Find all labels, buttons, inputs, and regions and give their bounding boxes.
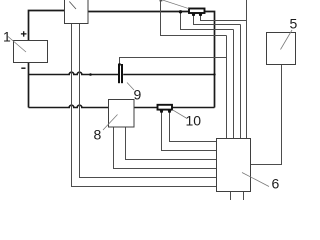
component 10 left tab [160, 110, 164, 113]
wire leg of box 8 right down to box 6 [126, 127, 217, 160]
box 2 interior diagonal [69, 2, 76, 10]
wire leg of box 2 right down to box 6 [80, 24, 217, 178]
wire leg of component 10 left down to box 6 [162, 113, 217, 151]
wire main line box 2 to component 7 [88, 11, 189, 13]
junction dot on y74 bus [89, 73, 92, 76]
leader label 5 [281, 30, 293, 50]
component 7 body [189, 9, 205, 14]
svg-text:10: 10 [186, 113, 202, 129]
wire bus y74 with crossover hops [29, 72, 119, 74]
wire leg of box 8 left down to box 6 [114, 127, 217, 169]
wire from top edge down crossing main line [161, 0, 227, 36]
wire box 6 bottom pin left [230, 192, 232, 201]
leader label 10 [173, 110, 188, 119]
wire capacitor right to vertical bus [123, 74, 214, 76]
wire top edge to box 6 pin 4 [246, 0, 248, 139]
component 7 left tab [192, 13, 196, 16]
wire box 6 pin 2 vertical [233, 30, 235, 139]
wire box 5 down to box 6 right [251, 65, 282, 165]
label 7 fragment at top edge [160, 0, 163, 1]
wire box 6 pin 3 vertical [240, 25, 242, 139]
capacitor C9 right plate [121, 64, 123, 83]
wire leg of component 10 right down to box 6 [170, 113, 217, 142]
wire battery 1 negative vertical [28, 63, 30, 108]
box 6 controller [217, 139, 251, 192]
svg-text:5: 5 [290, 16, 298, 32]
leader label 8 [103, 115, 118, 131]
component 10 body [158, 105, 173, 110]
wire box 6 bottom pin right [243, 192, 245, 201]
capacitor C9 left plate [118, 64, 120, 83]
wire component 7 left tab bus [194, 16, 241, 25]
component 10 right tab [168, 110, 172, 113]
wire component 7 right tab bus [201, 16, 247, 21]
junction dot on main line [179, 10, 182, 13]
box 5 [267, 33, 296, 65]
box 8 [109, 100, 135, 128]
wire box 8 to component 10 [134, 107, 158, 109]
wire component 7 output down right side [205, 12, 215, 108]
wire from junction dot down to bus [181, 12, 234, 30]
leader label 7 [163, 0, 190, 9]
svg-text:1: 1 [3, 29, 11, 45]
junction dot capacitor top [118, 63, 121, 66]
wire leg of box 2 left down to box 6 [72, 24, 217, 187]
svg-text:6: 6 [272, 176, 280, 192]
component 7 right tab [199, 13, 203, 16]
junction dot bus right [213, 73, 215, 75]
box 1 battery [14, 41, 48, 63]
wire bus y107 with crossover hops [29, 105, 109, 107]
svg-text:8: 8 [94, 127, 102, 143]
wire capacitor 9 top tap [120, 58, 227, 65]
plus sign battery [21, 31, 27, 36]
wire + from battery 1 up to box 2 [29, 11, 65, 41]
minus sign battery [21, 67, 25, 69]
box 2 top [65, 0, 89, 24]
svg-text:9: 9 [134, 87, 142, 103]
leader label 1 [8, 37, 26, 53]
leader label 6 [242, 173, 269, 187]
leader label 9 [127, 83, 134, 91]
wire component 10 to vertical bus [172, 107, 215, 109]
wire box 6 pin 1 vertical [226, 36, 228, 139]
